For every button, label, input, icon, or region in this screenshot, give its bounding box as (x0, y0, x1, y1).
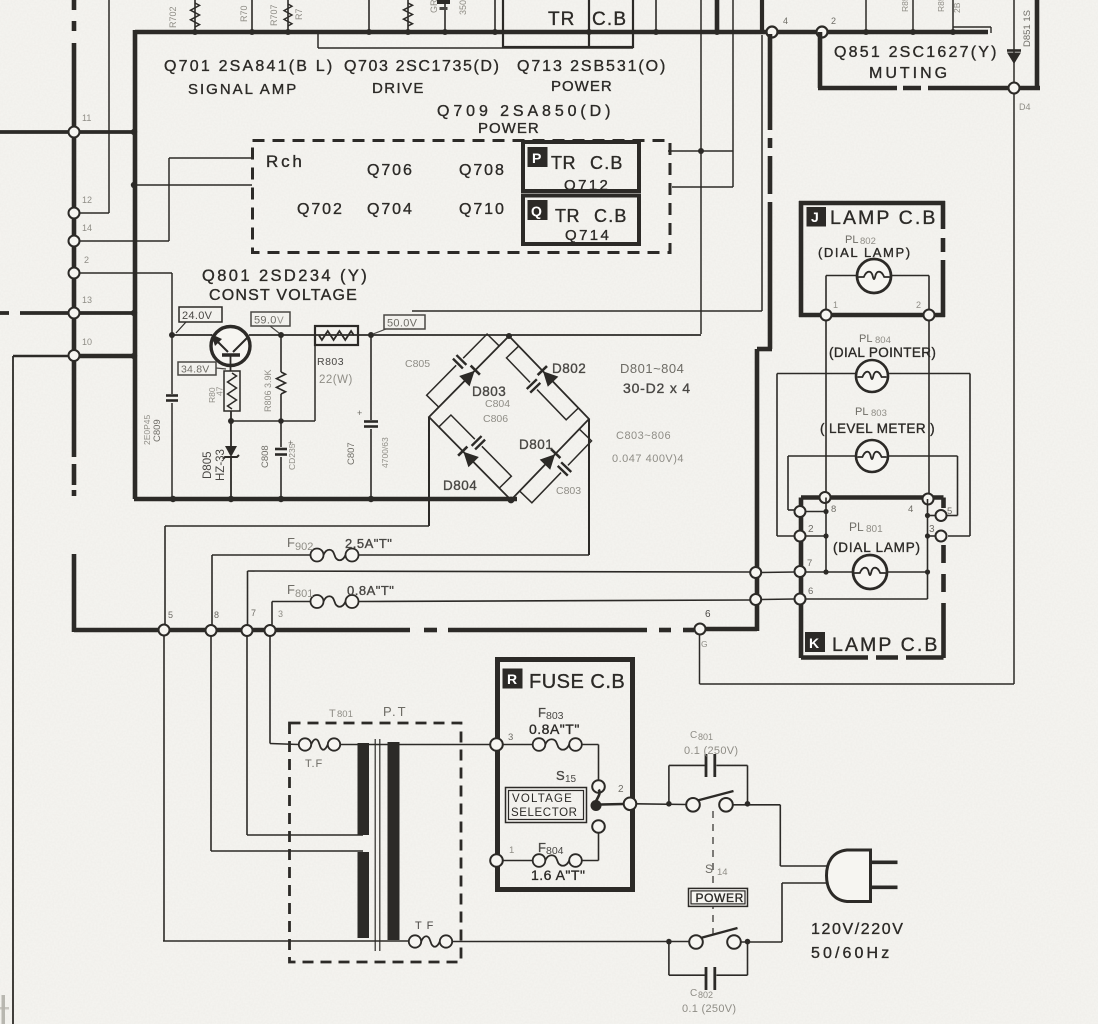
svg-text:C809: C809 (152, 419, 163, 442)
svg-text:PL: PL (849, 520, 864, 534)
svg-text:8: 8 (831, 504, 836, 515)
svg-text:D802: D802 (552, 361, 586, 376)
svg-text:801: 801 (337, 709, 353, 720)
svg-text:MUTING: MUTING (869, 65, 950, 82)
svg-text:0.8A"T": 0.8A"T" (347, 583, 394, 598)
svg-text:2: 2 (808, 524, 814, 535)
svg-text:SIGNAL AMP: SIGNAL AMP (188, 81, 298, 98)
svg-text:120V/220V: 120V/220V (811, 921, 905, 938)
svg-text:7: 7 (251, 608, 256, 618)
svg-text:Q708: Q708 (459, 162, 506, 179)
svg-text:12: 12 (82, 195, 92, 205)
svg-text:V: V (277, 316, 284, 327)
svg-text:4700/63: 4700/63 (380, 437, 390, 468)
svg-text:801: 801 (866, 524, 883, 535)
svg-text:1.6 A"T": 1.6 A"T" (531, 867, 585, 883)
svg-text:6: 6 (705, 609, 711, 620)
svg-text:Q703 2SC1735(D): Q703 2SC1735(D) (344, 58, 501, 75)
svg-text:C.B: C.B (590, 153, 624, 173)
svg-text:3: 3 (278, 609, 283, 619)
svg-text:T F: T F (415, 920, 434, 932)
svg-text:(DIAL POINTER): (DIAL POINTER) (829, 345, 936, 360)
svg-text:(DIAL LAMP): (DIAL LAMP) (818, 245, 912, 260)
svg-text:C: C (690, 988, 697, 999)
svg-text:C803: C803 (556, 485, 581, 497)
svg-text:G: G (701, 639, 708, 649)
svg-text:R702: R702 (168, 6, 178, 28)
svg-text:R: R (507, 671, 517, 687)
svg-text:D801: D801 (519, 437, 553, 452)
svg-text:3: 3 (929, 524, 935, 535)
svg-text:8: 8 (214, 610, 219, 620)
svg-text:S: S (556, 768, 565, 783)
svg-text:Q714: Q714 (565, 227, 611, 244)
svg-text:F: F (287, 535, 295, 550)
svg-text:C803~806: C803~806 (616, 430, 671, 442)
svg-text:10: 10 (82, 337, 92, 347)
svg-text:POWER: POWER (696, 891, 744, 905)
svg-text:11: 11 (82, 113, 91, 123)
svg-text:2: 2 (916, 300, 921, 310)
svg-text:5: 5 (947, 506, 952, 517)
svg-text:801: 801 (295, 588, 313, 600)
svg-text:C.B: C.B (594, 206, 628, 226)
svg-text:59.0: 59.0 (254, 315, 277, 327)
svg-text:Q713 2SB531(O): Q713 2SB531(O) (517, 58, 667, 75)
svg-text:PL: PL (859, 333, 872, 345)
svg-text:TR: TR (551, 153, 576, 173)
svg-text:SELECTOR: SELECTOR (511, 807, 578, 819)
svg-text:3: 3 (508, 732, 513, 743)
svg-text:802: 802 (698, 990, 713, 1000)
svg-text:14: 14 (82, 223, 92, 233)
svg-text:R852: R852 (936, 0, 946, 12)
svg-text:C806: C806 (483, 413, 508, 425)
svg-text:C807: C807 (346, 442, 357, 465)
svg-text:30-D2 x 4: 30-D2 x 4 (623, 380, 691, 396)
svg-text:P: P (532, 150, 541, 166)
svg-text:Q851 2SC1627(Y): Q851 2SC1627(Y) (834, 44, 999, 61)
svg-text:T: T (329, 708, 336, 720)
svg-text:F: F (287, 582, 295, 597)
svg-text:S: S (705, 862, 713, 876)
svg-text:22(W): 22(W) (319, 374, 353, 386)
svg-text:CD235: CD235 (287, 443, 297, 470)
svg-text:PL: PL (855, 406, 868, 418)
svg-text:D803: D803 (472, 384, 506, 399)
svg-text:Q704: Q704 (367, 201, 414, 218)
svg-text:C: C (690, 730, 697, 741)
svg-text:Q701 2SA841(B L): Q701 2SA841(B L) (164, 58, 334, 75)
svg-text:1: 1 (509, 845, 514, 856)
svg-text:R803: R803 (317, 356, 344, 368)
svg-text:Q702: Q702 (297, 201, 344, 218)
svg-text:R851: R851 (900, 0, 910, 12)
svg-text:CONST VOLTAGE: CONST VOLTAGE (209, 287, 358, 304)
svg-text:5: 5 (168, 610, 173, 620)
svg-text:2: 2 (84, 255, 89, 265)
svg-text:Q709 2SA850(D): Q709 2SA850(D) (437, 103, 614, 120)
svg-text:D851 1S: D851 1S (1022, 10, 1033, 47)
svg-text:+: + (357, 408, 362, 418)
svg-text:HZ-33: HZ-33 (215, 449, 227, 481)
svg-text:GR: GR (429, 0, 439, 13)
svg-text:Q710: Q710 (459, 201, 506, 218)
svg-text:F: F (538, 705, 546, 720)
svg-text:LAMP C.B: LAMP C.B (830, 207, 937, 229)
svg-text:C808: C808 (260, 445, 271, 468)
svg-text:2: 2 (618, 784, 624, 795)
svg-text:902: 902 (295, 541, 313, 553)
svg-text:Q712: Q712 (564, 177, 610, 194)
svg-text:TR: TR (555, 206, 580, 226)
svg-text:F: F (538, 840, 546, 855)
svg-text:C.B: C.B (592, 9, 627, 30)
svg-text:0.8A"T": 0.8A"T" (529, 721, 580, 737)
svg-text:50/60Hz: 50/60Hz (811, 945, 892, 962)
svg-text:POWER: POWER (478, 120, 540, 137)
svg-text:K: K (809, 635, 819, 651)
svg-text:2E0P45: 2E0P45 (142, 414, 152, 445)
svg-text:C805: C805 (405, 358, 430, 370)
svg-text:D4: D4 (1019, 102, 1031, 112)
svg-text:803: 803 (871, 408, 887, 419)
svg-text:24.0V: 24.0V (182, 310, 213, 322)
svg-text:0.047 400V)4: 0.047 400V)4 (612, 453, 684, 465)
svg-text:(DIAL LAMP): (DIAL LAMP) (833, 540, 921, 555)
svg-text:50.0V: 50.0V (387, 318, 418, 330)
svg-text:POWER: POWER (551, 78, 613, 95)
svg-text:R7: R7 (294, 8, 304, 20)
svg-text:J: J (811, 209, 819, 225)
svg-text:4: 4 (908, 504, 913, 515)
svg-text:1: 1 (833, 300, 838, 310)
svg-text:D804: D804 (443, 478, 477, 493)
svg-text:C804: C804 (485, 398, 510, 410)
svg-text:R707: R707 (269, 4, 279, 26)
svg-text:TR: TR (548, 9, 575, 30)
svg-text:47: 47 (215, 386, 225, 396)
svg-text:0.1 (250V): 0.1 (250V) (682, 1003, 736, 1015)
svg-text:2: 2 (831, 16, 836, 26)
svg-text:0.1 (250V): 0.1 (250V) (684, 745, 738, 757)
svg-text:R806 3.9K: R806 3.9K (263, 369, 273, 412)
svg-text:P.T: P.T (383, 704, 408, 719)
svg-text:Q706: Q706 (367, 162, 414, 179)
svg-text:34.8V: 34.8V (181, 364, 209, 376)
svg-text:Q801 2SD234 (Y): Q801 2SD234 (Y) (202, 267, 369, 285)
svg-text:15: 15 (565, 774, 577, 785)
svg-text:( LEVEL METER ): ( LEVEL METER ) (820, 421, 935, 436)
svg-text:FUSE C.B: FUSE C.B (529, 671, 625, 693)
svg-text:Q: Q (531, 203, 542, 219)
svg-text:13: 13 (82, 295, 92, 305)
svg-text:R70: R70 (239, 5, 249, 22)
svg-text:6: 6 (808, 586, 813, 597)
svg-text:14: 14 (717, 867, 728, 878)
svg-text:801: 801 (698, 732, 713, 742)
svg-text:LAMP C.B: LAMP C.B (832, 634, 939, 656)
svg-text:VOLTAGE: VOLTAGE (512, 793, 573, 805)
svg-text:350: 350 (458, 0, 468, 15)
svg-text:2.5A"T": 2.5A"T" (345, 536, 392, 551)
svg-text:Rch: Rch (266, 152, 305, 171)
svg-text:4: 4 (783, 16, 788, 26)
svg-text:DRIVE: DRIVE (372, 80, 425, 97)
svg-text:D801~804: D801~804 (620, 361, 684, 376)
svg-text:7: 7 (807, 558, 812, 569)
svg-text:T.F: T.F (305, 758, 323, 770)
svg-text:D805: D805 (202, 452, 214, 480)
